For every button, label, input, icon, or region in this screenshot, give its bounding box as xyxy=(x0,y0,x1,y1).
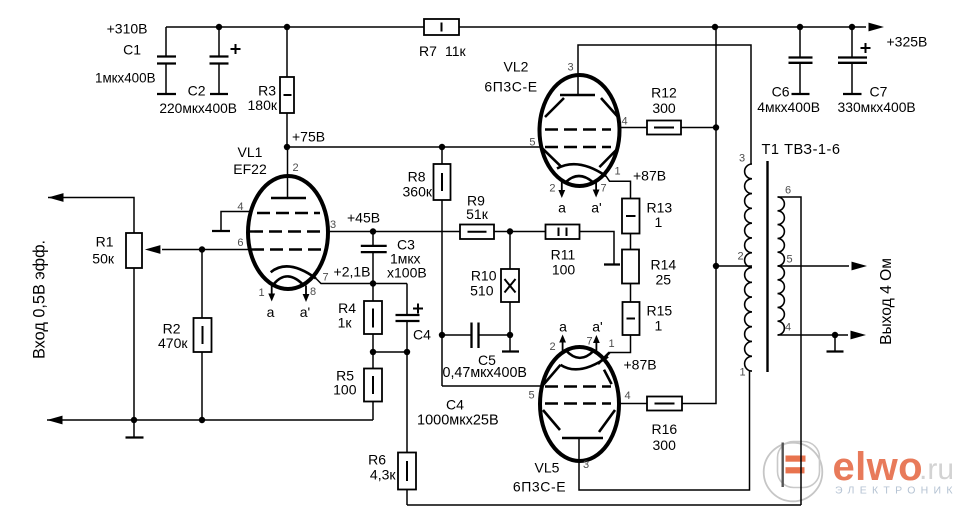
svg-text:VL2: VL2 xyxy=(504,59,529,75)
svg-text:510: 510 xyxy=(470,283,494,299)
svg-text:300: 300 xyxy=(652,100,676,116)
svg-text:R10: R10 xyxy=(471,268,497,284)
svg-text:R12: R12 xyxy=(651,85,677,101)
svg-text:3: 3 xyxy=(330,219,336,231)
svg-text:a': a' xyxy=(591,200,601,216)
svg-text:4: 4 xyxy=(785,322,791,334)
svg-text:51к: 51к xyxy=(466,206,489,222)
svg-text:11к: 11к xyxy=(445,43,467,59)
svg-text:.ru: .ru xyxy=(919,453,954,486)
svg-text:R16: R16 xyxy=(652,421,678,437)
svg-text:360к: 360к xyxy=(403,184,433,200)
svg-text:300: 300 xyxy=(653,437,677,453)
svg-text:1: 1 xyxy=(259,287,265,299)
svg-text:1: 1 xyxy=(740,367,746,379)
svg-text:ЭЛЕКТРОНИК: ЭЛЕКТРОНИК xyxy=(835,485,958,497)
svg-text:C4: C4 xyxy=(413,327,431,343)
svg-text:C4: C4 xyxy=(446,397,464,413)
svg-text:elwo: elwo xyxy=(833,445,924,489)
svg-text:330мкх400В: 330мкх400В xyxy=(838,99,916,115)
svg-text:R7: R7 xyxy=(419,43,437,59)
svg-text:R15: R15 xyxy=(647,303,673,319)
svg-text:5: 5 xyxy=(787,254,793,266)
svg-text:3: 3 xyxy=(583,459,589,471)
svg-text:+75В: +75В xyxy=(292,129,325,145)
svg-text:+87В: +87В xyxy=(633,168,666,184)
svg-text:6: 6 xyxy=(237,237,243,249)
svg-text:+2,1В: +2,1В xyxy=(334,264,371,280)
svg-text:1к: 1к xyxy=(338,315,353,331)
svg-text:6: 6 xyxy=(785,185,791,197)
svg-text:R6: R6 xyxy=(368,452,386,468)
svg-text:4: 4 xyxy=(237,201,243,213)
svg-text:1мкх400В: 1мкх400В xyxy=(95,71,156,86)
svg-text:1: 1 xyxy=(609,338,615,350)
svg-text:6П3С-Е: 6П3С-Е xyxy=(484,79,537,95)
svg-text:7: 7 xyxy=(601,183,607,195)
svg-text:R8: R8 xyxy=(408,169,426,185)
svg-text:+45В: +45В xyxy=(347,210,380,226)
svg-text:1: 1 xyxy=(655,214,663,230)
svg-text:EF22: EF22 xyxy=(233,161,267,177)
svg-text:5: 5 xyxy=(529,390,535,402)
svg-text:2: 2 xyxy=(738,251,744,263)
svg-text:+325В: +325В xyxy=(887,34,928,50)
svg-text:3: 3 xyxy=(739,153,745,165)
svg-text:0,47мкх400В: 0,47мкх400В xyxy=(443,365,527,381)
svg-text:a: a xyxy=(558,200,566,216)
svg-text:5: 5 xyxy=(529,137,535,149)
svg-text:VL5: VL5 xyxy=(535,460,560,476)
svg-text:220мкх400В: 220мкх400В xyxy=(159,101,237,116)
svg-text:470к: 470к xyxy=(158,335,188,351)
svg-text:4,3к: 4,3к xyxy=(370,467,396,483)
svg-text:a': a' xyxy=(592,319,602,335)
svg-text:T1 ТВЗ-1-6: T1 ТВЗ-1-6 xyxy=(762,142,841,158)
svg-text:1000мкх25В: 1000мкх25В xyxy=(417,413,499,429)
svg-text:100: 100 xyxy=(333,382,357,398)
svg-text:180к: 180к xyxy=(248,97,278,113)
svg-text:VL1: VL1 xyxy=(238,144,263,160)
svg-text:a': a' xyxy=(300,304,310,320)
svg-text:7: 7 xyxy=(587,336,593,348)
svg-text:C6: C6 xyxy=(772,84,790,100)
svg-text:3: 3 xyxy=(568,62,574,74)
svg-text:Выход 4 Ом: Выход 4 Ом xyxy=(878,258,895,345)
svg-text:7: 7 xyxy=(323,272,329,284)
svg-text:4: 4 xyxy=(622,116,628,128)
svg-text:a: a xyxy=(559,319,567,335)
svg-text:R1: R1 xyxy=(96,234,114,250)
svg-text:C1: C1 xyxy=(123,42,141,58)
svg-text:2: 2 xyxy=(550,341,556,353)
svg-text:100: 100 xyxy=(552,262,576,278)
svg-text:+87В: +87В xyxy=(624,357,657,373)
svg-text:25: 25 xyxy=(656,272,672,288)
svg-text:R11: R11 xyxy=(551,247,576,263)
svg-text:6П3С-Е: 6П3С-Е xyxy=(513,479,566,495)
svg-text:a: a xyxy=(267,304,275,320)
svg-text:2: 2 xyxy=(549,183,555,195)
svg-text:2: 2 xyxy=(293,162,299,174)
svg-text:R14: R14 xyxy=(651,257,677,273)
svg-text:4: 4 xyxy=(625,390,631,402)
svg-text:+310В: +310В xyxy=(107,21,148,37)
svg-text:1: 1 xyxy=(615,166,621,178)
svg-text:C2: C2 xyxy=(188,83,206,99)
svg-text:8: 8 xyxy=(310,286,316,298)
svg-text:Вход 0,5В эфф.: Вход 0,5В эфф. xyxy=(31,240,49,359)
svg-text:1: 1 xyxy=(655,318,663,334)
svg-text:4мкх400В: 4мкх400В xyxy=(757,99,820,115)
svg-text:C7: C7 xyxy=(870,84,888,100)
svg-text:х100В: х100В xyxy=(387,265,427,281)
svg-text:50к: 50к xyxy=(92,251,115,267)
